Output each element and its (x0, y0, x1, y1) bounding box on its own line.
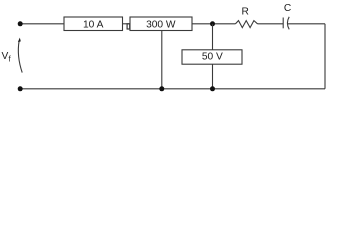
wire between 10A and 300W boxes (123, 23, 131, 25)
wire from 300W box to resistor (192, 23, 236, 25)
svg-text:C: C (284, 3, 291, 14)
node E (bottom junction under 50V) (210, 86, 215, 91)
label Vf (2, 51, 12, 64)
small connector tick between boxes (127, 24, 130, 29)
svg-text:V: V (2, 51, 9, 62)
voltage arc arrow Vf (18, 38, 22, 73)
svg-text:300 W: 300 W (146, 19, 176, 30)
wire from resistor to capacitor (258, 23, 284, 25)
svg-text:R: R (242, 7, 249, 18)
capacitor C (283, 3, 291, 29)
resistor R (236, 7, 258, 28)
node A (top-left terminal dot) (18, 21, 23, 26)
node D (bottom junction under 300W) (159, 86, 164, 91)
wire bottom horizontal (20, 88, 325, 90)
svg-text:10 A: 10 A (83, 19, 104, 30)
source box 50 V (182, 50, 242, 64)
svg-text:50 V: 50 V (202, 51, 223, 62)
node B (top junction dot) (210, 21, 215, 26)
source box 10 A (64, 17, 123, 31)
wire vertical from 300W box down to bottom (161, 31, 163, 89)
wire right side vertical (324, 24, 326, 89)
wire vertical branch through 50V box (212, 24, 214, 89)
wire from capacitor to top-right corner (287, 23, 325, 25)
node C (bottom-left terminal dot) (18, 86, 23, 91)
wire top-left from node A to 10A box (20, 23, 64, 25)
load box 300 W (130, 17, 192, 31)
